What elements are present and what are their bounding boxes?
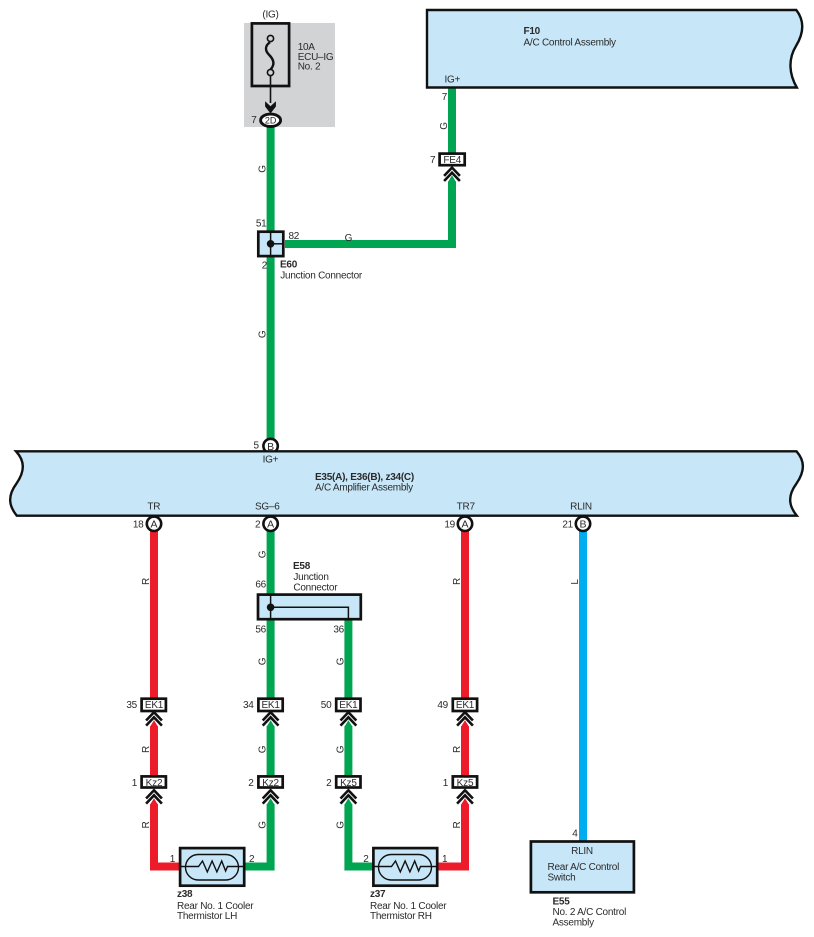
svg-text:82: 82 [289,231,300,242]
svg-text:Junction: Junction [293,572,328,583]
connector Kz2 pin 2 [258,776,282,789]
svg-text:G: G [258,550,269,558]
svg-text:A/C Amplifier Assembly: A/C Amplifier Assembly [315,483,413,494]
svg-text:Connector: Connector [293,583,338,594]
wire R from Kz2(1) to thermistor z38 pin 1 [154,804,180,866]
svg-text:Rear A/C Control: Rear A/C Control [548,862,620,873]
svg-text:z37: z37 [370,889,386,900]
svg-text:21: 21 [562,519,573,530]
svg-text:E55: E55 [553,896,571,907]
wire G from Kz2(2) to thermistor z38 pin 2 [245,804,271,866]
svg-text:R: R [452,578,463,585]
fuse 10A ECU-IG No.2 [252,23,289,103]
thermistor z37 Rear No.1 Cooler Thermistor RH [373,848,437,886]
svg-text:z38: z38 [177,889,193,900]
wire R from Kz5(1) to thermistor z37 pin 1 [438,804,465,866]
svg-text:Thermistor LH: Thermistor LH [177,911,237,922]
node A pin 19 (TR7) [458,517,472,531]
svg-text:F10: F10 [524,26,541,37]
svg-text:TR7: TR7 [457,502,476,513]
svg-text:G: G [335,657,346,665]
connector EK1 pin 34 [258,699,282,712]
svg-text:Assembly: Assembly [553,918,595,929]
svg-text:G: G [258,821,269,829]
fuse block gray shading [244,23,335,127]
node B pin 5 of amplifier [263,439,277,453]
svg-text:7: 7 [430,155,436,166]
svg-text:35: 35 [126,700,137,711]
connector Kz5 pin 2 [336,776,360,789]
wire G from EK1(34) to Kz2(2) [267,726,275,777]
svg-text:4: 4 [572,829,578,840]
svg-text:56: 56 [255,625,266,636]
connector EK1 pin 35 [142,699,166,712]
svg-text:E35(A), E36(B), z34(C): E35(A), E36(B), z34(C) [315,472,414,483]
wire G tip below Kz5(2) chevrons [344,798,352,805]
svg-text:7: 7 [442,92,448,103]
svg-text:50: 50 [321,700,332,711]
svg-text:G: G [439,122,450,130]
E55 Rear A/C Control Switch [531,842,634,893]
svg-text:L: L [570,579,581,585]
node B pin 21 (RLIN) [576,517,590,531]
svg-text:Kz5: Kz5 [457,778,474,789]
svg-text:2: 2 [249,854,255,865]
svg-text:EK1: EK1 [456,700,475,711]
wire G from connector 2D down to node B of A/C amplifier [267,127,275,440]
connector 2D [261,114,281,126]
svg-text:2: 2 [363,854,369,865]
wire R tip below Kz5(1) chevrons [461,798,469,805]
svg-text:RLIN: RLIN [570,502,592,513]
svg-text:18: 18 [133,519,144,530]
svg-text:36: 36 [333,625,344,636]
svg-text:1: 1 [443,778,449,789]
wire G tip below FE4 chevrons [448,175,456,182]
svg-text:5: 5 [253,440,259,451]
svg-text:(IG): (IG) [262,10,278,21]
connector FE4 [440,154,465,167]
svg-text:2: 2 [326,778,332,789]
svg-text:RLIN: RLIN [571,846,593,857]
svg-text:1: 1 [132,778,138,789]
wire G from EK1(50) to Kz5(2) [344,726,352,777]
svg-text:E58: E58 [293,561,311,572]
wire G from F10 IG+ down to connector FE4 [448,88,456,154]
svg-text:R: R [452,746,463,753]
wire R from EK1(35) to Kz2(1) [150,726,158,777]
svg-text:G: G [335,821,346,829]
wire R tip below EK1(35) chevrons [150,720,158,727]
connector Kz2 pin 1 [142,776,166,789]
svg-text:IG+: IG+ [444,74,460,85]
wire R tip below Kz2(1) chevrons [150,798,158,805]
connector EK1 pin 50 [336,699,360,712]
svg-text:G: G [335,745,346,753]
arrow into connector 2D [265,101,276,113]
svg-text:R: R [141,578,152,585]
wire G branch from E58 pin 36 to connector EK1(50) [344,620,352,700]
connector Kz5 pin 1 [453,776,477,789]
svg-text:A: A [267,519,274,531]
svg-text:G: G [258,745,269,753]
svg-text:Kz2: Kz2 [146,778,163,789]
junction connector E58 [258,595,361,620]
svg-text:G: G [258,330,269,338]
svg-text:49: 49 [437,700,448,711]
svg-text:EK1: EK1 [261,700,280,711]
wire R from amplifier TR7 to connector EK1(49) [461,530,469,700]
svg-text:2D: 2D [265,115,277,125]
svg-text:Kz2: Kz2 [262,778,279,789]
svg-text:No. 2: No. 2 [298,62,321,73]
svg-text:G: G [345,233,353,244]
wire G from Kz5(2) to thermistor z37 pin 2 [348,804,372,866]
wire G tip below Kz2(2) chevrons [267,798,275,805]
svg-text:No. 2 A/C Control: No. 2 A/C Control [553,907,627,918]
wire R from amplifier TR to connector EK1(35) [150,530,158,700]
svg-text:A: A [461,519,468,531]
svg-text:TR: TR [147,502,160,513]
svg-text:66: 66 [255,580,266,591]
svg-text:B: B [579,519,586,531]
wire G from amplifier SG-6 through E58 to connector EK1(34) [267,530,275,700]
wire L from amplifier RLIN to E55 rear A/C control switch [579,530,587,841]
svg-text:1: 1 [170,854,176,865]
svg-text:Thermistor RH: Thermistor RH [370,911,432,922]
svg-text:R: R [452,821,463,828]
in-line connector chevrons FE4 [444,168,460,176]
wire R from EK1(49) to Kz5(1) [461,726,469,777]
wire R tip below EK1(49) chevrons [461,720,469,727]
svg-text:R: R [141,746,152,753]
svg-text:G: G [258,165,269,173]
svg-text:FE4: FE4 [443,155,461,166]
svg-text:R: R [141,821,152,828]
svg-text:2: 2 [248,778,254,789]
svg-text:51: 51 [256,219,267,230]
A/C Amplifier Assembly band E35(A) E36(B) z34(C) [10,451,803,515]
svg-text:SG–6: SG–6 [255,502,280,513]
svg-text:EK1: EK1 [339,700,358,711]
thermistor z38 Rear No.1 Cooler Thermistor LH [180,848,244,886]
svg-text:7: 7 [251,115,257,126]
svg-text:19: 19 [444,519,455,530]
svg-text:1: 1 [442,854,448,865]
svg-text:2: 2 [262,261,268,272]
svg-text:Kz5: Kz5 [340,778,357,789]
svg-text:34: 34 [243,700,254,711]
wire G tip below EK1(34) chevrons [267,720,275,727]
F10 A/C Control Assembly [427,10,802,88]
node A pin 2 (SG-6) [263,517,277,531]
junction connector E60 [258,232,283,256]
svg-text:Junction Connector: Junction Connector [280,271,363,282]
connector EK1 pin 49 [453,699,477,712]
svg-text:A/C Control Assembly: A/C Control Assembly [524,38,617,49]
wire G from FE4 down, left to junction connector E60 [285,181,452,244]
node A pin 18 (TR) [147,517,161,531]
svg-text:E60: E60 [280,259,298,270]
wire G tip below EK1(50) chevrons [344,720,352,727]
svg-text:Switch: Switch [548,872,576,883]
svg-text:2: 2 [255,519,261,530]
svg-text:IG+: IG+ [263,455,279,466]
svg-text:G: G [258,657,269,665]
svg-text:EK1: EK1 [145,700,164,711]
svg-text:A: A [150,519,157,531]
